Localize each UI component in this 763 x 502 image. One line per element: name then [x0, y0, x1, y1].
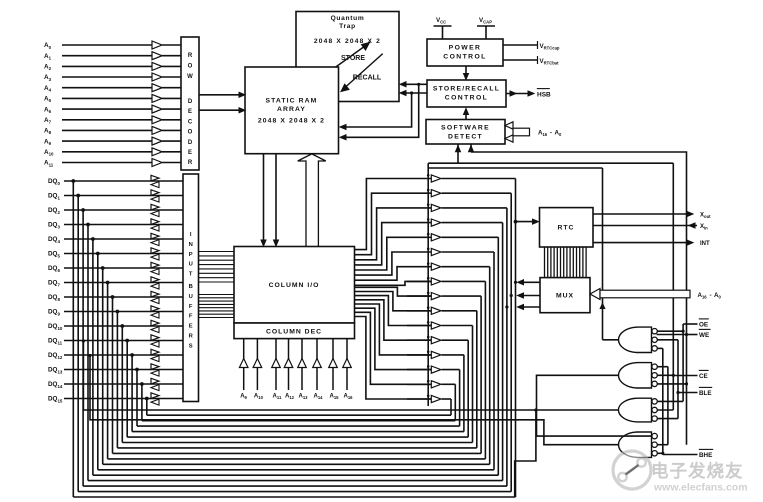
- svg-text:Trap: Trap: [339, 23, 356, 30]
- svg-text:-: -: [710, 292, 712, 299]
- svg-text:D: D: [188, 140, 193, 146]
- svg-text:2048 X 2048 X 2: 2048 X 2048 X 2: [314, 38, 381, 45]
- svg-text:A10: A10: [254, 394, 264, 401]
- svg-text:F: F: [189, 314, 193, 320]
- svg-text:E: E: [188, 150, 192, 156]
- svg-text:A12: A12: [285, 394, 295, 401]
- svg-text:C: C: [188, 119, 193, 125]
- svg-text:W: W: [187, 74, 193, 80]
- svg-text:A14: A14: [314, 394, 324, 401]
- svg-text:STORE/RECALL: STORE/RECALL: [433, 86, 500, 93]
- svg-text:STATIC RAM: STATIC RAM: [266, 98, 318, 105]
- svg-text:HSB: HSB: [537, 91, 551, 98]
- svg-text:COLUMN DEC: COLUMN DEC: [266, 329, 322, 336]
- svg-text:MUX: MUX: [556, 293, 574, 300]
- svg-text:Xout: Xout: [700, 213, 711, 220]
- svg-text:STORE: STORE: [341, 55, 365, 62]
- svg-text:CONTROL: CONTROL: [443, 54, 486, 61]
- svg-text:POWER: POWER: [449, 45, 482, 52]
- svg-text:2048 X 2048 X 2: 2048 X 2048 X 2: [258, 118, 325, 125]
- svg-text:E: E: [189, 324, 193, 330]
- svg-text:T: T: [189, 272, 193, 278]
- svg-text:E: E: [188, 109, 192, 115]
- svg-text:Quantum: Quantum: [331, 15, 365, 22]
- svg-text:N: N: [189, 242, 193, 248]
- svg-text:F: F: [189, 304, 193, 310]
- svg-text:CONTROL: CONTROL: [445, 95, 488, 102]
- svg-text:R: R: [188, 160, 193, 166]
- svg-text:O: O: [188, 130, 193, 136]
- svg-text:U: U: [189, 294, 193, 300]
- svg-text:RECALL: RECALL: [353, 75, 382, 82]
- svg-text:RTC: RTC: [558, 225, 575, 232]
- svg-text:OE: OE: [699, 322, 708, 329]
- svg-text:D: D: [188, 99, 193, 105]
- svg-text:U: U: [189, 262, 193, 268]
- svg-text:A15: A15: [330, 394, 340, 401]
- svg-text:-: -: [550, 130, 552, 137]
- svg-text:SOFTWARE: SOFTWARE: [441, 125, 490, 132]
- svg-text:Xin: Xin: [700, 224, 708, 231]
- svg-text:WE: WE: [699, 332, 709, 339]
- svg-text:BLE: BLE: [699, 390, 712, 397]
- svg-text:INT: INT: [700, 241, 710, 247]
- svg-text:A13: A13: [299, 394, 309, 401]
- svg-text:A11: A11: [273, 394, 282, 401]
- svg-text:A16: A16: [344, 394, 354, 401]
- svg-text:COLUMN I/O: COLUMN I/O: [269, 282, 320, 289]
- svg-text:电子发烧友: 电子发烧友: [651, 461, 744, 481]
- svg-text:O: O: [188, 64, 193, 70]
- svg-text:S: S: [189, 343, 193, 349]
- svg-text:A9: A9: [240, 394, 247, 401]
- svg-text:BHE: BHE: [699, 452, 712, 459]
- svg-text:P: P: [189, 252, 193, 258]
- svg-text:ARRAY: ARRAY: [277, 106, 306, 113]
- svg-text:www.elecfans.com: www.elecfans.com: [653, 482, 748, 494]
- svg-text:DETECT: DETECT: [448, 134, 483, 141]
- svg-text:R: R: [188, 53, 193, 59]
- svg-text:CE: CE: [699, 373, 708, 380]
- svg-text:B: B: [189, 284, 193, 290]
